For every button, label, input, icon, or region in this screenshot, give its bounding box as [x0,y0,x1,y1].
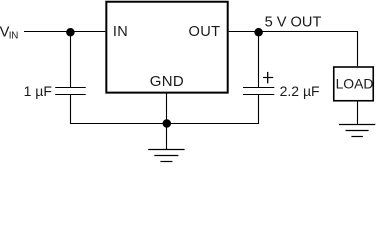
svg-text:LOAD: LOAD [336,76,374,92]
svg-text:IN: IN [9,31,18,42]
svg-text:GND: GND [150,73,184,90]
svg-text:1 µF: 1 µF [24,83,52,99]
svg-text:IN: IN [113,24,128,40]
svg-text:5 V OUT: 5 V OUT [265,14,322,30]
svg-text:OUT: OUT [189,24,221,40]
svg-text:2.2 µF: 2.2 µF [280,83,320,99]
